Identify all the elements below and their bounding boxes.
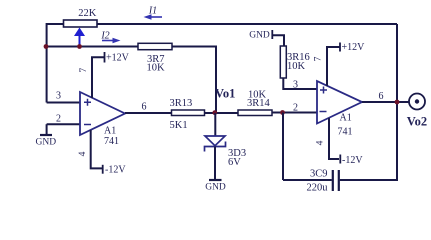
svg-text:3C9: 3C9 <box>310 169 328 180</box>
label +12V op-amp2 <box>342 42 366 53</box>
svg-text:5K1: 5K1 <box>170 120 188 131</box>
ground at zener <box>205 180 226 193</box>
wire main horizontal to R7 <box>47 46 138 48</box>
wire top feedback from pot to right corner <box>97 23 397 25</box>
svg-text:GND: GND <box>249 31 270 41</box>
label Vo2 <box>407 115 427 129</box>
op-amp U1 triangle <box>80 92 125 135</box>
svg-text:7: 7 <box>79 68 89 73</box>
wire bottom left of capacitor <box>283 179 332 181</box>
label 3R13 5K1 <box>170 98 193 131</box>
svg-text:741: 741 <box>338 127 353 138</box>
wire op-amp1 pin2 <box>47 123 80 125</box>
svg-text:A1: A1 <box>104 126 116 137</box>
pin label 3 op-amp2 <box>293 80 298 91</box>
ground at R16 top <box>249 30 284 46</box>
label Vo1 <box>215 87 235 101</box>
svg-text:GND: GND <box>205 183 226 193</box>
pin label 2 op-amp2 <box>293 103 298 114</box>
current arrow I1 <box>144 14 163 20</box>
wire R16 to op-amp2 pin3 <box>283 78 317 89</box>
svg-text:6: 6 <box>379 91 384 102</box>
svg-text:-12V: -12V <box>105 165 126 176</box>
pin label 4 rotated <box>78 151 88 156</box>
label 3C9 220u <box>307 169 329 194</box>
wire op-amp2 output <box>362 101 409 103</box>
svg-text:7: 7 <box>314 56 324 61</box>
svg-text:+12V: +12V <box>342 42 366 53</box>
label I1 <box>148 6 157 17</box>
pin label 3 <box>56 91 61 102</box>
node junction dot wiper <box>77 44 82 49</box>
svg-text:6: 6 <box>142 102 147 113</box>
svg-text:Vo1: Vo1 <box>215 87 235 101</box>
terminal Vo2 <box>409 94 425 110</box>
op-amp2 pin7 wire to +12V <box>327 43 340 87</box>
resistor R14 body <box>238 110 272 116</box>
node junction dot output <box>395 100 400 105</box>
svg-text:220u: 220u <box>307 183 329 194</box>
svg-text:10K: 10K <box>147 63 166 74</box>
pin label 7 rotated op-amp2 <box>314 56 324 61</box>
potentiometer wiper arrow <box>74 28 85 47</box>
label 3D3 6V <box>228 148 246 168</box>
svg-text:2: 2 <box>293 103 298 114</box>
ground at op-amp1 pin2 <box>36 124 57 147</box>
op-amp1 pin4 wire to -12V <box>91 130 103 174</box>
pin label 4 rotated op-amp2 <box>316 140 326 145</box>
op-amp2 pin4 wire to -12V <box>329 118 340 164</box>
resistor R16 body vertical <box>280 46 286 78</box>
wire bottom right of capacitor <box>340 179 398 181</box>
wire pot left terminal down to pin3 <box>47 24 64 103</box>
svg-text:I2: I2 <box>100 31 109 42</box>
op-amp U2 triangle <box>317 81 362 124</box>
resistor R13 body <box>172 110 205 116</box>
svg-text:I1: I1 <box>148 6 157 17</box>
wire right vertical feedback <box>396 24 398 180</box>
capacitor C9 plates <box>333 170 339 191</box>
svg-text:2: 2 <box>56 114 61 125</box>
current arrow I2 <box>102 38 121 44</box>
zener diode D3 <box>205 113 226 180</box>
svg-text:3R14: 3R14 <box>247 98 271 109</box>
resistor R7 body <box>138 43 172 49</box>
wire R13 to R14 <box>205 112 239 114</box>
wire op-amp1 pin3 <box>47 102 80 104</box>
svg-text:10K: 10K <box>287 61 306 72</box>
label +12V op-amp1 <box>106 53 130 64</box>
svg-text:22K: 22K <box>78 8 97 19</box>
svg-text:Vo2: Vo2 <box>407 115 427 129</box>
node junction dot pin2 <box>280 110 285 115</box>
svg-text:3: 3 <box>56 91 61 102</box>
svg-text:+12V: +12V <box>106 53 130 64</box>
wire down from pin2 node to bottom <box>282 113 284 181</box>
label -12V op-amp1 <box>105 165 126 176</box>
svg-text:3R13: 3R13 <box>170 98 193 109</box>
label 3R7 10K <box>147 54 166 74</box>
label 3R16 10K <box>287 52 310 72</box>
pin label 6 <box>142 102 147 113</box>
svg-text:4: 4 <box>316 140 326 145</box>
label 10K 3R14 <box>247 90 271 110</box>
op-amp1 pin7 wire to +12V <box>92 52 105 98</box>
label A1 741 op-amp2 <box>338 113 353 138</box>
label -12V op-amp2 <box>342 155 363 166</box>
svg-text:741: 741 <box>104 136 119 147</box>
pin label 2 <box>56 114 61 125</box>
pin label 7 rotated <box>79 68 89 73</box>
pin label 6 op-amp2 <box>379 91 384 102</box>
svg-text:GND: GND <box>36 138 57 148</box>
svg-text:-12V: -12V <box>342 155 363 166</box>
wire from R7 right down to Vo1 node <box>172 47 216 114</box>
label A1 741 <box>104 126 119 148</box>
svg-text:3: 3 <box>293 80 298 91</box>
svg-text:6V: 6V <box>228 157 241 168</box>
svg-text:4: 4 <box>78 151 88 156</box>
wire R14 to op-amp2 pin2 <box>272 112 317 114</box>
label 22K <box>78 8 97 19</box>
node junction dot left <box>44 44 49 49</box>
wire op-amp1 output <box>125 112 172 114</box>
label I2 <box>100 31 109 42</box>
svg-text:A1: A1 <box>340 113 352 124</box>
potentiometer 22K body <box>64 20 98 27</box>
node Vo1 junction dot <box>212 110 217 115</box>
